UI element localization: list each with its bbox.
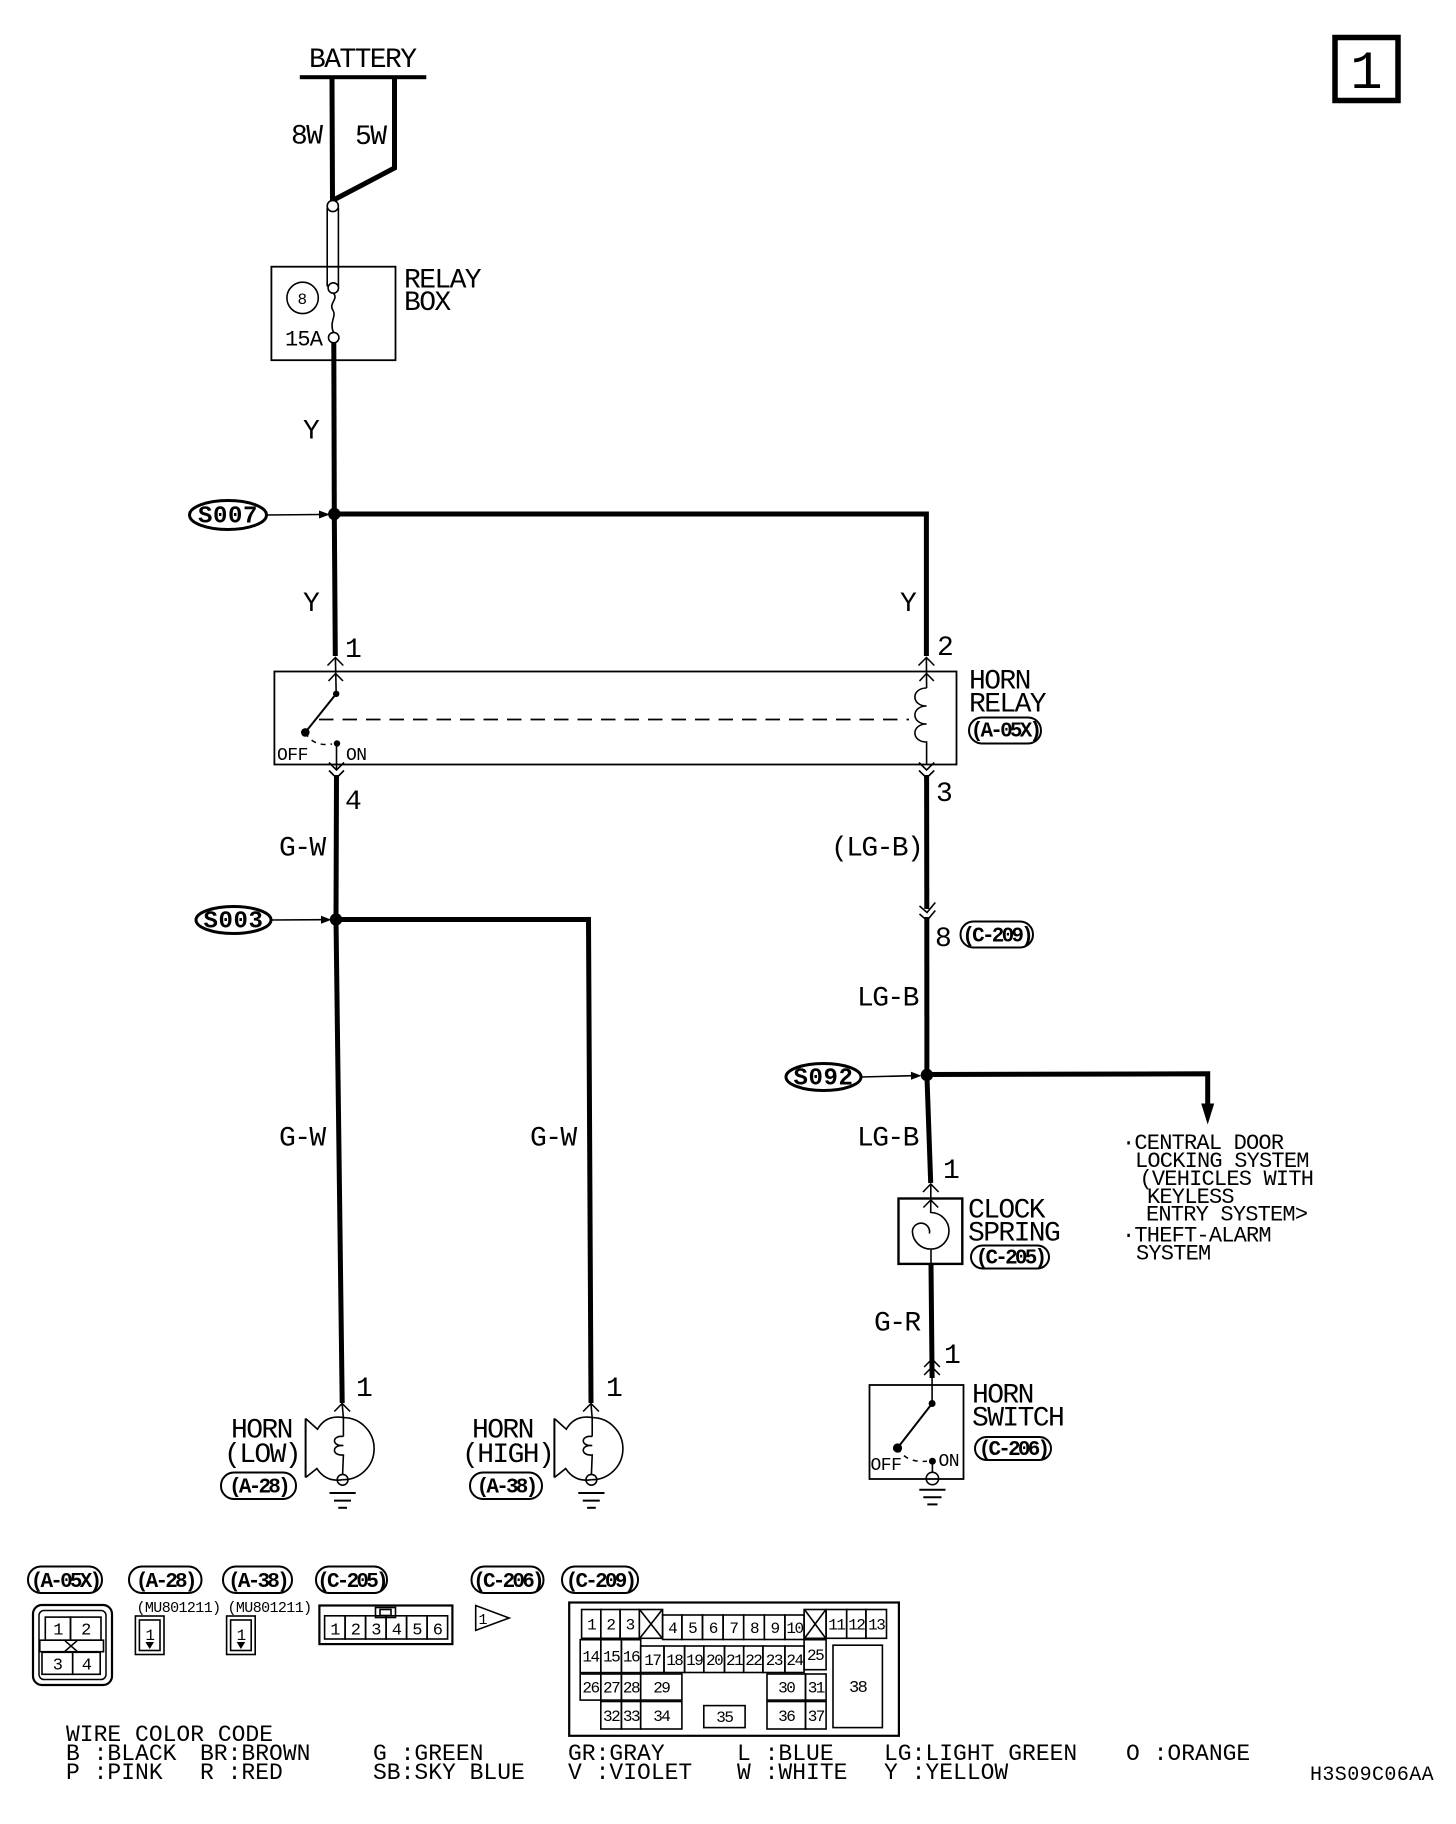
svg-text:G-W: G-W [530, 1124, 577, 1155]
svg-text:24: 24 [786, 1652, 803, 1670]
ground horn switch [919, 1489, 945, 1491]
relay coil [915, 688, 927, 764]
splice S092 [786, 1064, 861, 1091]
svg-text:(A-38): (A-38) [477, 1477, 536, 1500]
svg-text:(A-28): (A-28) [229, 1477, 288, 1500]
svg-text:5: 5 [412, 1622, 422, 1641]
horn high ground terminal [586, 1474, 597, 1485]
svg-text:ON: ON [346, 746, 367, 766]
svg-text:26: 26 [582, 1680, 599, 1698]
wire bus S007 to right column [334, 512, 926, 517]
svg-text:(C-209): (C-209) [962, 926, 1031, 949]
horn high internal coil [591, 1418, 593, 1437]
svg-text:(A-38): (A-38) [228, 1571, 287, 1594]
connector C-209 pinout [569, 1603, 899, 1736]
relay actuation dashed link [319, 719, 909, 721]
svg-text:RELAY: RELAY [969, 690, 1047, 721]
fuse number circle 8 [287, 282, 318, 313]
svg-text:3: 3 [936, 779, 952, 810]
horn switch box C-206 [870, 1385, 964, 1479]
connector label A-28 [221, 1473, 296, 1500]
svg-text:G-W: G-W [279, 1124, 326, 1155]
svg-text:Y: Y [900, 589, 917, 620]
wire 8W (battery feed left) [330, 79, 336, 201]
relay switch arm [305, 694, 336, 733]
wire G-R clock spring to horn switch [931, 1264, 932, 1378]
connector label C-209 inline [961, 922, 1034, 948]
svg-text:4: 4 [345, 787, 361, 818]
horn switch ON contact [929, 1458, 936, 1465]
svg-text:3: 3 [626, 1616, 635, 1634]
wire Y down right to horn relay pin 2 [924, 512, 929, 657]
svg-text:(A-28): (A-28) [136, 1571, 195, 1594]
relay ON contact [334, 740, 340, 746]
svg-text:31: 31 [808, 1680, 825, 1698]
horn switch pivot [893, 1443, 902, 1452]
svg-text:W :WHITE: W :WHITE [737, 1760, 847, 1786]
horn switch throw dashed [898, 1448, 928, 1461]
wire LG-B to S092 [924, 917, 929, 1075]
svg-text:G-W: G-W [279, 834, 326, 865]
svg-text:34: 34 [653, 1708, 670, 1726]
svg-text:Y: Y [303, 589, 320, 620]
wire G-W relay pin4 to S003 [334, 775, 340, 920]
junction node S003 [330, 913, 342, 925]
horn switch entry chevrons [924, 1359, 940, 1367]
svg-text:3: 3 [53, 1657, 63, 1676]
connector C-205 pinout [319, 1606, 452, 1645]
svg-text:OFF: OFF [277, 746, 308, 766]
svg-text:10: 10 [786, 1620, 803, 1638]
svg-text:13: 13 [868, 1616, 885, 1634]
ground horn low [330, 1492, 356, 1494]
svg-text:6: 6 [433, 1622, 443, 1641]
svg-text:1: 1 [943, 1156, 959, 1187]
svg-text:(HIGH): (HIGH) [462, 1440, 553, 1471]
svg-text:1: 1 [1350, 44, 1382, 105]
pin 2 chevrons [919, 658, 935, 666]
svg-text:3: 3 [371, 1622, 381, 1641]
svg-text:30: 30 [778, 1680, 795, 1698]
svg-text:20: 20 [706, 1652, 723, 1670]
svg-text:9: 9 [771, 1620, 780, 1638]
svg-text:16: 16 [623, 1649, 640, 1667]
svg-text:(C-209): (C-209) [566, 1571, 635, 1594]
connector label (A-05X) [28, 1567, 102, 1594]
connector label C-206 [975, 1437, 1051, 1460]
relay switch throw dashed [305, 732, 332, 744]
connector label (A-28) [129, 1567, 202, 1594]
ground horn high [578, 1492, 604, 1494]
svg-text:1: 1 [944, 1341, 960, 1372]
svg-text:8: 8 [750, 1620, 759, 1638]
svg-text:18: 18 [666, 1652, 683, 1670]
svg-text:15: 15 [603, 1649, 620, 1667]
wire Y from relay box to S007 [331, 343, 337, 514]
svg-text:7: 7 [729, 1620, 738, 1638]
svg-text:G-R: G-R [874, 1309, 921, 1340]
svg-text:2: 2 [937, 633, 952, 664]
svg-text:15A: 15A [285, 328, 324, 353]
junction node S092 [921, 1069, 933, 1081]
svg-text:(LOW): (LOW) [224, 1440, 300, 1471]
relay switch fixed contact [333, 691, 339, 697]
svg-text:V :VIOLET: V :VIOLET [568, 1760, 692, 1786]
svg-text:1: 1 [330, 1622, 340, 1641]
splice S007 [190, 501, 267, 530]
svg-text:37: 37 [808, 1708, 825, 1726]
svg-text:(C-206): (C-206) [979, 1439, 1048, 1462]
svg-text:OFF: OFF [871, 1456, 902, 1476]
svg-text:32: 32 [603, 1708, 620, 1726]
svg-text:2: 2 [81, 1622, 90, 1641]
svg-text:35: 35 [716, 1709, 733, 1727]
horn switch ground terminal [931, 1461, 933, 1472]
inline connector C-209 chevrons [920, 903, 936, 913]
svg-text:H3S09C06AA: H3S09C06AA [1310, 1764, 1434, 1787]
svg-text:27: 27 [603, 1680, 620, 1698]
arrow S007 to junction [267, 514, 321, 517]
svg-text:1: 1 [356, 1374, 372, 1405]
svg-text:S092: S092 [793, 1066, 853, 1093]
svg-text:5W: 5W [355, 122, 387, 153]
svg-text:4: 4 [392, 1622, 402, 1641]
fusible link capsule [327, 200, 338, 211]
clock spring spiral [912, 1213, 949, 1250]
connector label (C-205) [316, 1567, 387, 1594]
svg-text:SYSTEM: SYSTEM [1136, 1242, 1210, 1267]
junction node S007 [328, 508, 340, 520]
svg-text:33: 33 [623, 1708, 640, 1726]
svg-text:BOX: BOX [404, 288, 451, 319]
svg-text:1: 1 [606, 1374, 622, 1405]
horn low internal coil [342, 1418, 344, 1437]
relay switch pivot [301, 728, 310, 737]
splice S003 [196, 907, 271, 934]
connector label (C-209) [562, 1567, 638, 1594]
relay pin 3 exit [919, 763, 934, 771]
wire Y down left to horn relay pin 1 [334, 514, 335, 656]
wire (LG-B) relay pin3 down [924, 775, 929, 909]
svg-text:29: 29 [653, 1680, 670, 1698]
svg-text:Y: Y [303, 417, 320, 448]
fuse element squiggle [332, 293, 335, 332]
svg-text:1: 1 [479, 1612, 488, 1629]
svg-text:17: 17 [644, 1652, 661, 1670]
connector label C-205 [971, 1246, 1049, 1269]
horn high entry chevrons [583, 1404, 599, 1412]
connector label A-05X [969, 718, 1041, 744]
svg-text:22: 22 [745, 1652, 762, 1670]
connector A-05X pinout [33, 1605, 112, 1685]
relay box outline RELAY BOX [271, 267, 395, 361]
svg-text:(C-206): (C-206) [473, 1571, 542, 1594]
wire G-W to horn low [336, 920, 342, 1404]
svg-text:2: 2 [351, 1622, 360, 1641]
wire branch to systems arrow [927, 1074, 1208, 1105]
svg-text:1: 1 [53, 1622, 63, 1641]
clock spring entry chevron [923, 1184, 939, 1192]
svg-text:8W: 8W [291, 122, 323, 153]
svg-text:ON: ON [939, 1452, 960, 1472]
svg-text:S003: S003 [203, 909, 263, 936]
connector label (C-206) [472, 1567, 544, 1594]
svg-text:14: 14 [582, 1649, 599, 1667]
svg-text:36: 36 [778, 1708, 795, 1726]
svg-text:O :ORANGE: O :ORANGE [1126, 1741, 1250, 1767]
svg-text:8: 8 [298, 291, 307, 309]
svg-text:(C-205): (C-205) [976, 1248, 1045, 1271]
svg-text:2: 2 [606, 1616, 615, 1634]
clock spring inner chevron [923, 1200, 938, 1208]
svg-text:SB:SKY BLUE: SB:SKY BLUE [373, 1760, 525, 1786]
svg-text:BATTERY: BATTERY [309, 45, 417, 76]
svg-text:(MU801211): (MU801211) [137, 1600, 221, 1617]
horn switch arm [898, 1404, 933, 1449]
svg-text:(A-05X): (A-05X) [971, 721, 1040, 744]
relay pin 4 exit [336, 744, 338, 770]
svg-text:R :RED: R :RED [200, 1760, 283, 1786]
svg-text:8: 8 [935, 924, 950, 955]
page number box 1 [1335, 38, 1398, 101]
horn relay box U1 [274, 672, 956, 765]
svg-text:4: 4 [82, 1657, 92, 1676]
svg-text:Y :YELLOW: Y :YELLOW [884, 1760, 1008, 1786]
svg-text:23: 23 [766, 1652, 783, 1670]
svg-text:28: 28 [623, 1680, 640, 1698]
svg-text:(MU801211): (MU801211) [228, 1600, 312, 1617]
svg-text:(LG-B): (LG-B) [831, 834, 922, 865]
svg-text:12: 12 [848, 1616, 865, 1634]
battery bus bar [300, 75, 427, 79]
connector C-206 pinout [476, 1606, 510, 1631]
svg-text:21: 21 [726, 1652, 743, 1670]
svg-text:SWITCH: SWITCH [972, 1404, 1063, 1435]
horn low entry chevrons [334, 1404, 350, 1412]
horn low symbol (A-28) [343, 1418, 375, 1480]
svg-text:1: 1 [587, 1616, 596, 1634]
connector label (A-38) [223, 1567, 292, 1594]
wire LG-B to clock spring [927, 1075, 931, 1183]
svg-text:11: 11 [828, 1616, 845, 1634]
svg-text:(A-05X): (A-05X) [31, 1571, 100, 1594]
wire branch to horn high [336, 920, 591, 1404]
fuse bottom terminal [329, 332, 339, 342]
pin 1 chevrons [328, 658, 344, 666]
svg-text:38: 38 [849, 1679, 868, 1698]
svg-text:(C-205): (C-205) [317, 1571, 386, 1594]
svg-text:P :PINK: P :PINK [66, 1760, 163, 1786]
svg-text:S007: S007 [198, 504, 258, 531]
wire 5W (battery feed right) [335, 79, 395, 200]
horn high symbol (A-38) [591, 1418, 623, 1480]
connector label A-38 [470, 1473, 542, 1500]
arrow S092 to junction [861, 1076, 912, 1077]
arrow S003 to junction [271, 919, 322, 921]
horn low ground terminal [337, 1474, 348, 1485]
svg-text:1: 1 [345, 635, 361, 666]
svg-text:6: 6 [709, 1620, 718, 1638]
svg-text:25: 25 [807, 1647, 824, 1665]
svg-text:LG-B: LG-B [857, 1124, 919, 1155]
horn switch fixed contact [931, 1385, 933, 1404]
svg-text:19: 19 [686, 1652, 703, 1670]
svg-text:5: 5 [688, 1620, 697, 1638]
clock spring box C-205 [899, 1199, 963, 1264]
svg-text:LG-B: LG-B [857, 984, 919, 1015]
svg-text:4: 4 [668, 1620, 677, 1638]
